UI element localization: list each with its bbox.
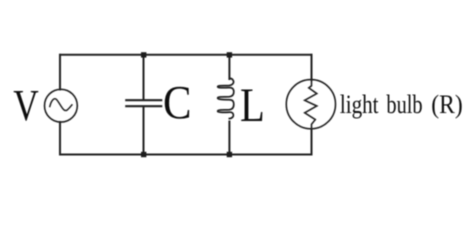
source V sine wave: [50, 99, 72, 111]
wire top rail: [60, 54, 312, 56]
capacitor C bottom plate: [126, 105, 161, 107]
source V circle: [45, 89, 78, 122]
svg-text:light: light: [340, 89, 379, 119]
wire inductor branch upper: [228, 55, 230, 79]
svg-text:bulb: bulb: [386, 89, 422, 119]
junction dot bottom inductor node: [227, 152, 232, 157]
svg-text:V: V: [13, 81, 39, 130]
junction dot bottom capacitor node: [141, 152, 146, 157]
wire bottom rail: [60, 154, 312, 156]
wire capacitor branch upper: [143, 55, 145, 100]
light bulb filament zigzag resistor: [305, 80, 317, 129]
light bulb circle: [286, 80, 335, 129]
wire left upper segment: [59, 55, 61, 90]
wire bulb branch lower: [311, 129, 313, 154]
svg-text:(R): (R): [431, 89, 462, 119]
junction dot top inductor node: [227, 52, 232, 57]
capacitor C top plate: [126, 99, 161, 101]
wire bulb branch upper: [311, 55, 313, 80]
junction dot top capacitor node: [141, 52, 146, 57]
wire left lower segment: [59, 122, 61, 155]
svg-text:L: L: [240, 79, 265, 132]
wire capacitor branch lower: [143, 107, 145, 155]
wire inductor branch lower: [228, 122, 230, 155]
svg-text:C: C: [163, 77, 192, 130]
inductor L coil: [218, 78, 234, 118]
